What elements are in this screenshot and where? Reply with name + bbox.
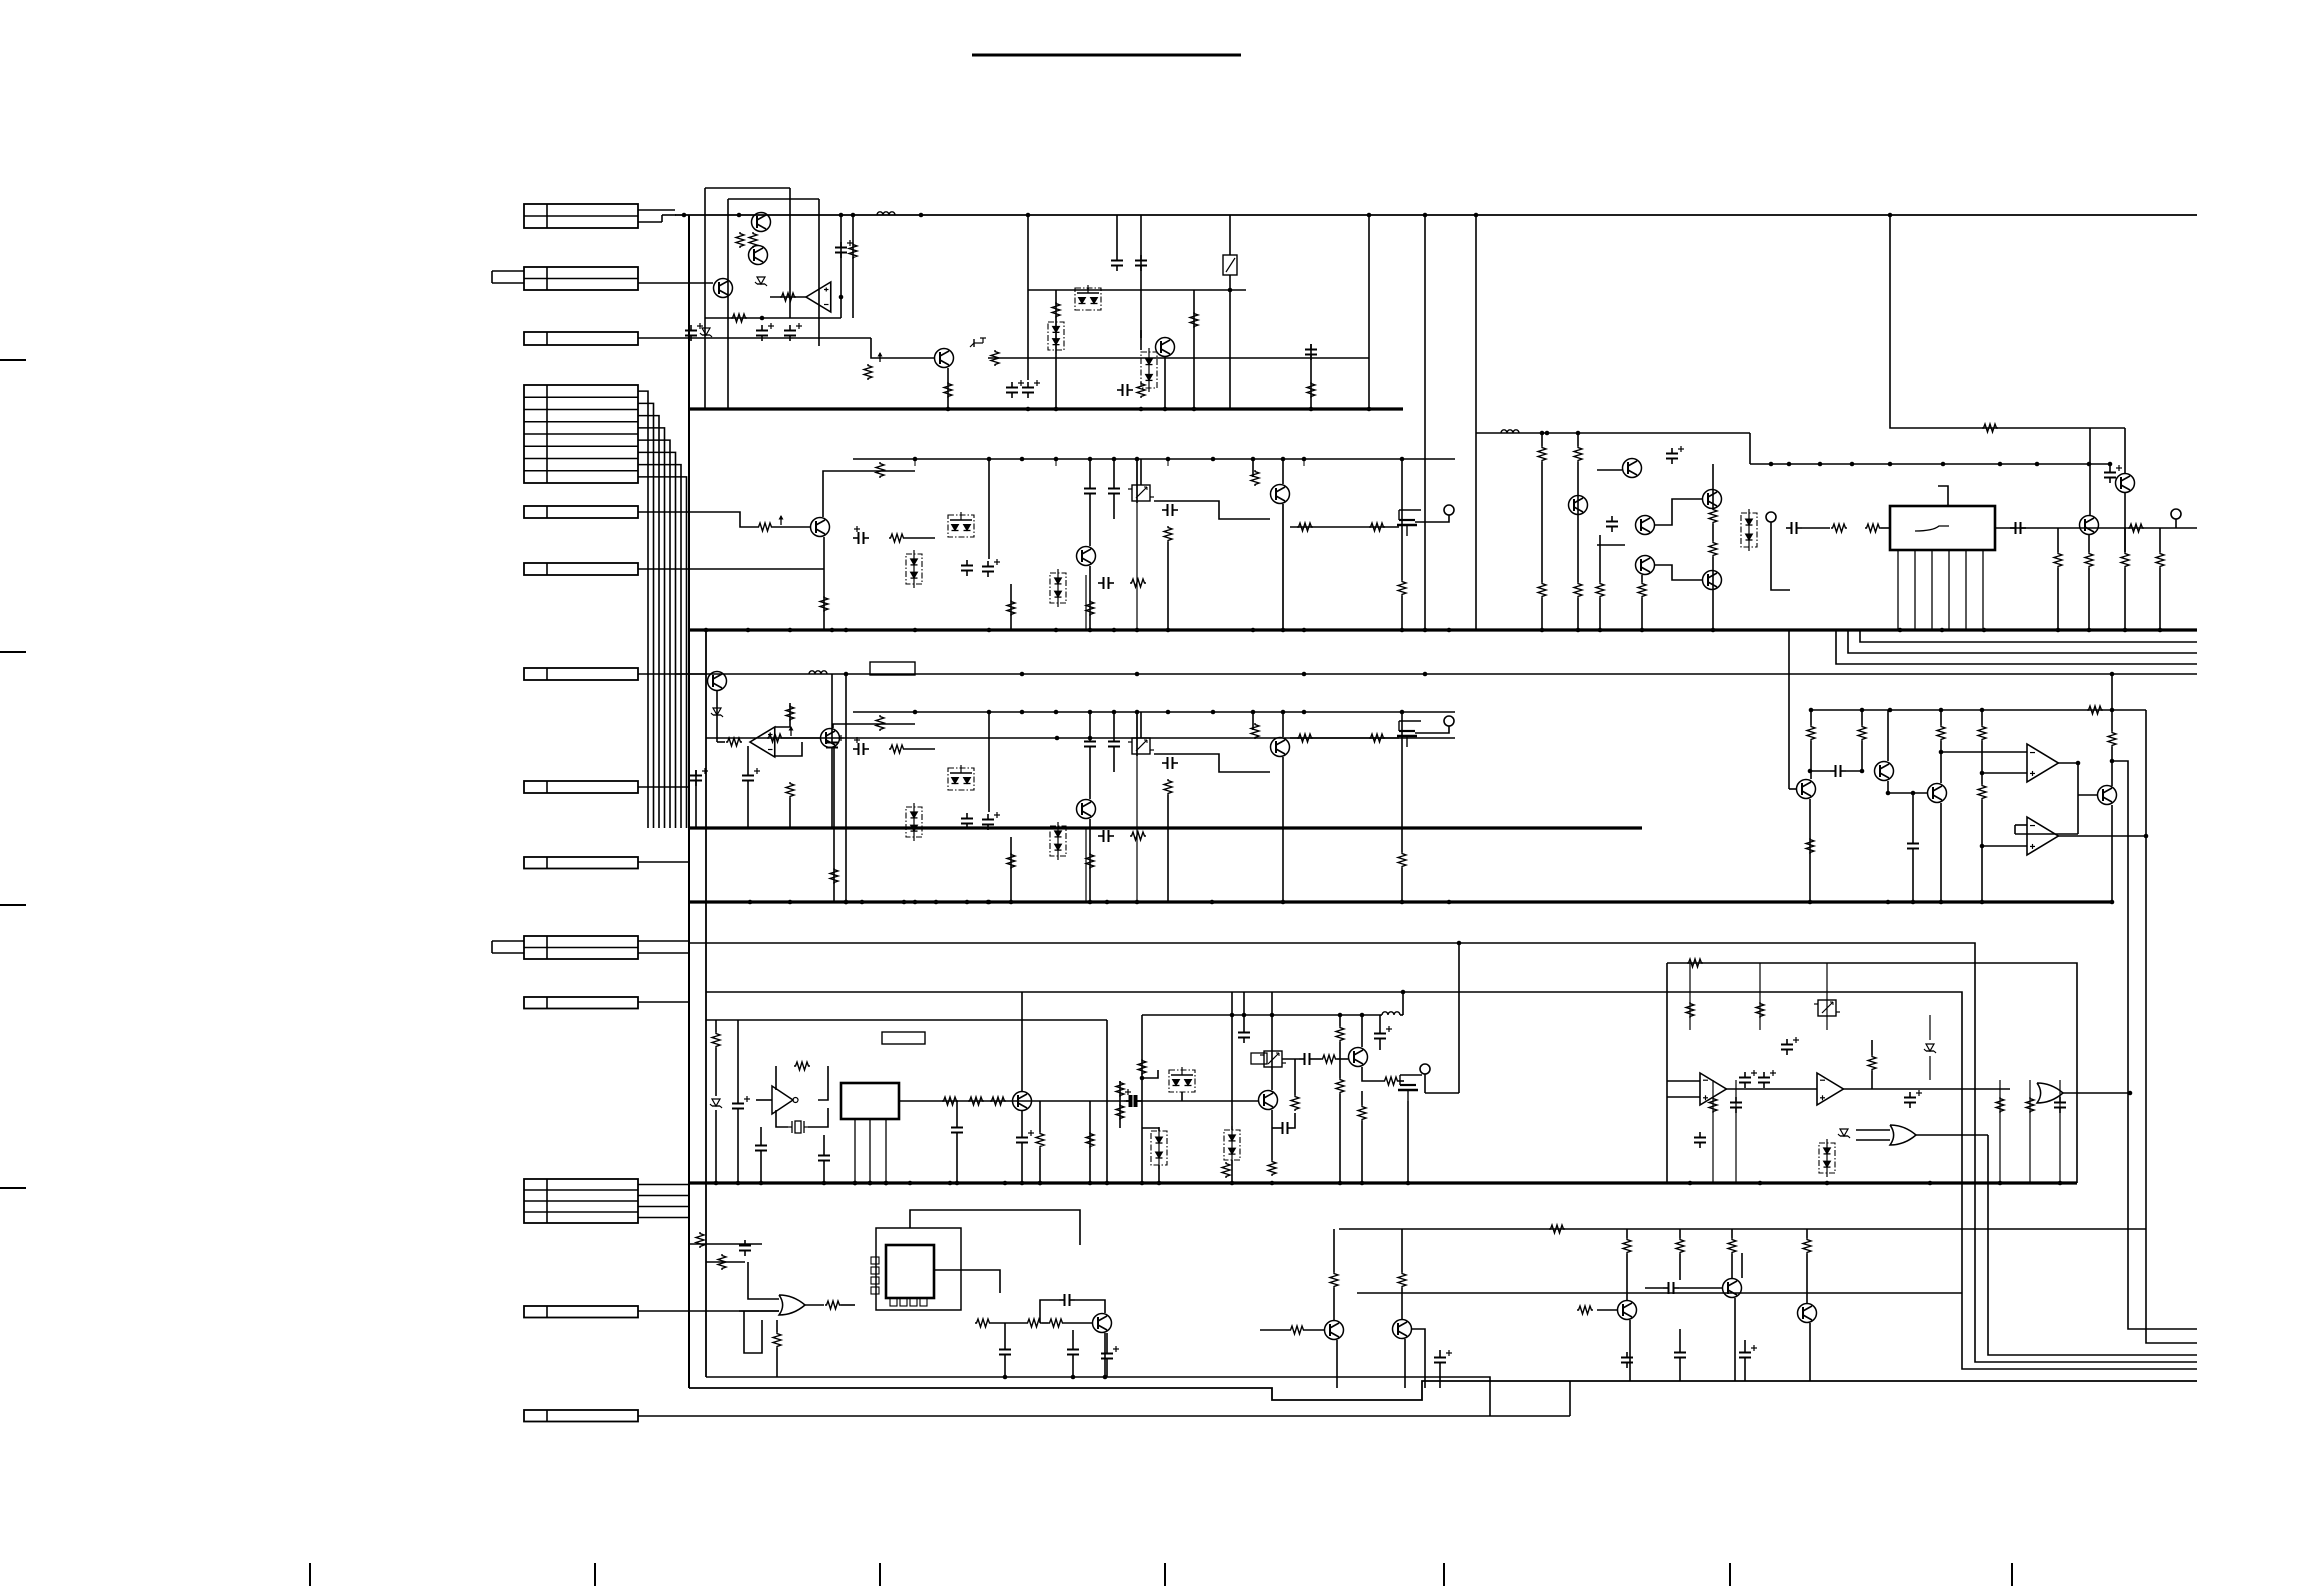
wire q611 junction: [1741, 1253, 1743, 1278]
wire ch2 v401: [1089, 459, 1091, 546]
resistor R190 on H3: [1982, 424, 1998, 432]
resistor R204: [1574, 582, 1582, 598]
wire IC602 pin l3: [871, 1277, 879, 1284]
or gate IC413: [1890, 1125, 1916, 1145]
node rail x1862: [1860, 708, 1865, 713]
node bus902b x1107: [1105, 900, 1110, 905]
node ch4 sb1272: [1270, 1013, 1275, 1018]
wire IC602 pin b1: [890, 1298, 897, 1306]
wire vert Vb: [1424, 215, 1426, 630]
wire q321 coll: [1887, 710, 1889, 761]
transistor Q203: [1636, 516, 1655, 535]
capacitor C432: [1694, 1132, 1706, 1148]
node bus1183 x1142: [1140, 1181, 1145, 1186]
wire exit H1355: [1988, 1135, 2197, 1355]
node H738 x1090: [1088, 736, 1093, 741]
wire v957: [956, 1101, 958, 1183]
resistor R108: [944, 382, 952, 398]
wire or out2: [841, 1304, 855, 1306]
terminal TP201: [1766, 512, 1776, 522]
wire ch2 v1168: [1167, 459, 1169, 466]
capacitor C303: [826, 735, 844, 753]
capacitor C101: [835, 240, 853, 258]
resistor R420: [1686, 1002, 1694, 1018]
resistor R208: [1709, 541, 1717, 557]
wire base vert Q320: [1788, 630, 1790, 789]
capacitor C620: [1434, 1350, 1452, 1368]
resistor R202: [1574, 446, 1582, 462]
diode pack ch2D1: [906, 550, 922, 588]
resistor R323: [1937, 725, 1945, 741]
capacitor C604: [1067, 1344, 1079, 1360]
resistor R506: [1036, 1132, 1044, 1148]
wire ch4 v1142: [1141, 1015, 1143, 1183]
wire q323 em: [2111, 805, 2113, 902]
node bus630r x2058: [2056, 628, 2061, 633]
resistor R431: [1116, 1081, 1124, 1097]
wire comp rail: [1810, 709, 2146, 711]
wire DL201 pin1: [1897, 550, 1899, 630]
resistor R601: [696, 1232, 704, 1248]
transistor Q501: [1013, 1092, 1032, 1111]
wire CN104 row8 tail: [638, 477, 687, 828]
node bus1183 x1340: [1338, 1181, 1343, 1186]
wire ch2 v300: [988, 459, 990, 559]
capacitor ch2C5: [1108, 483, 1120, 499]
or gate IC601: [779, 1295, 805, 1315]
wire ch2 q1up: [823, 471, 915, 517]
capacitor C503: [818, 1150, 830, 1166]
wire DL201 pin6: [1982, 550, 1984, 630]
node bus902b x1137: [1135, 900, 1140, 905]
node ch4 sb1362: [1360, 1013, 1365, 1018]
wire ch1 cluster top: [1540, 431, 1581, 446]
wire q107 link: [1140, 330, 1142, 338]
node bus902b x1402: [1400, 900, 1405, 905]
variable resistor RV101: [1223, 255, 1237, 275]
wire CN112 row1 tail: [638, 1184, 689, 1186]
node ch4 1078: [1140, 1076, 1145, 1081]
zener D102: [700, 328, 712, 337]
terminal TP202: [2171, 509, 2181, 519]
resistor ch2R11: [1398, 580, 1406, 596]
wire ch2 in: [773, 526, 810, 528]
wire left tick 1: [0, 359, 26, 361]
wire ch4 d401: [1142, 1128, 1159, 1183]
node ch4 sb1232: [1230, 1013, 1235, 1018]
wire CN113 tail: [638, 1310, 779, 1312]
wire osc top: [706, 1019, 1107, 1021]
connector CN110: [524, 936, 638, 959]
wire ch2 v1304: [1303, 459, 1305, 466]
connector CN109: [524, 857, 638, 869]
connector CN105: [524, 506, 638, 518]
node bus1183 x855: [853, 1181, 858, 1186]
resistor R302: [786, 705, 794, 721]
transistor Q320: [1797, 780, 1816, 799]
resistor ch3R11: [1398, 852, 1406, 868]
transistor ch2Q4: [1271, 485, 1290, 504]
wire or-input wiring: [689, 1244, 762, 1262]
wire v853: [852, 215, 854, 318]
transistor Q621: [1393, 1320, 1412, 1339]
wire v748: [747, 746, 749, 828]
wire CN110 tails: [638, 941, 689, 953]
wire v841: [840, 215, 842, 318]
node bus409 x1028: [1026, 407, 1031, 412]
wire ch2 v989: [988, 459, 990, 466]
node bus1377 x950: [948, 1181, 953, 1186]
wire y771: [1810, 770, 1864, 772]
wire subbox v1690a: [1689, 963, 1691, 1030]
wire v1862: [1861, 710, 1863, 771]
resistor R210: [1865, 524, 1881, 532]
resistor R104: [849, 243, 857, 259]
wire v2078: [2015, 763, 2078, 834]
node H738 x1057: [1055, 736, 1060, 741]
capacitor ch3C5: [1108, 736, 1120, 752]
diode pack D403: [1819, 1139, 1835, 1177]
wire thick bus row1: [689, 407, 1403, 410]
wire ch2 v594: [1282, 459, 1284, 484]
resistor ch3R8: [1251, 723, 1259, 739]
opto IC401: [1814, 1000, 1840, 1016]
capacitor C421: [1781, 1037, 1799, 1055]
wire v738: [737, 1020, 739, 1183]
node bus902b x790: [788, 900, 793, 905]
diode pack ch3D2: [1050, 822, 1066, 860]
mosfet pair ch2Q2: [948, 512, 974, 537]
resistor ch2R5: [1130, 579, 1146, 587]
capacitor C601: [739, 1240, 751, 1256]
node bus630 x790: [788, 628, 793, 633]
wire ic410 in: [1667, 1081, 1700, 1097]
wire CN105 tail: [638, 512, 757, 527]
wire q208: [2124, 493, 2126, 552]
zener D301: [711, 708, 723, 717]
node ch3 sb401: [1088, 710, 1093, 715]
resistor R604: [773, 1332, 781, 1348]
resistor ch3R4: [1164, 779, 1172, 795]
node H1 x921: [919, 213, 924, 218]
node bus409 x1194: [1192, 407, 1197, 412]
resistor R430: [1138, 1059, 1146, 1075]
wire c612 stub: [1680, 1329, 1745, 1381]
wire q620 base: [1260, 1329, 1324, 1331]
node n318: [760, 295, 844, 321]
capacitor ch3C3: [982, 812, 1000, 830]
node bus630r x1984: [1982, 628, 1987, 633]
capacitor C443: [1374, 1026, 1392, 1044]
resistor ch2R10: [1369, 523, 1385, 531]
wire ch2 v452: [1140, 459, 1142, 485]
wire ch3 v594: [1282, 712, 1284, 737]
node bus1377 x1073: [1071, 1375, 1076, 1380]
node bus1183 x1272: [1270, 1181, 1275, 1186]
op-amp IC310: [2027, 744, 2058, 782]
wire ic310 inm: [1941, 751, 2027, 753]
zener D101: [755, 277, 767, 286]
wire ch4 q402e: [1362, 1067, 1383, 1081]
node ch2 sb524: [1211, 457, 1216, 462]
capacitor C431: [1758, 1070, 1776, 1088]
wire DL201 pin2: [1914, 550, 1916, 630]
node bus902 x862: [860, 900, 865, 905]
node ch4 sb1244: [1242, 1013, 1247, 1018]
resistor R303: [786, 782, 794, 798]
wire ic310 inp: [1982, 772, 2027, 774]
resistor R212: [2054, 552, 2062, 568]
terminal ch2TP1: [1444, 505, 1454, 515]
node bus1183 x886: [884, 1181, 889, 1186]
wire v716: [715, 1020, 717, 1183]
node ch1 sb2110: [2108, 462, 2113, 467]
node ch1 sb1789: [1787, 462, 1792, 467]
node H674 x1022: [1020, 672, 1025, 677]
resistor R603: [825, 1301, 841, 1309]
capacitor C612: [1674, 1347, 1686, 1363]
wire DL201 curve: [1915, 526, 1949, 531]
node bus1377 x1005: [1003, 1375, 1008, 1380]
transistor Q208: [2116, 474, 2135, 493]
resistor ch2R3: [889, 534, 905, 542]
wire CN114 tail: [638, 1381, 1570, 1416]
node bus630r x1713: [1711, 628, 1716, 633]
wire IC602 pin b3: [910, 1298, 917, 1306]
wire CN104 row2 tail: [638, 403, 654, 828]
wire ch4 mos link: [1142, 1070, 1182, 1101]
wire ch3 tp: [1415, 726, 1449, 733]
node ch1 sb2000: [1998, 462, 2003, 467]
connector CN112: [524, 1179, 638, 1223]
wire ch2 q3em: [1085, 575, 1087, 630]
wire ic413 out: [1916, 1134, 1988, 1136]
wire ch4 v1232: [1231, 1015, 1233, 1183]
wire ch4 v1120: [1119, 1081, 1121, 1128]
wire CN104 row5 tail: [638, 440, 670, 828]
node bus1183 x1040: [1038, 1181, 1043, 1186]
wire ch3 out: [1290, 737, 1399, 739]
resistor R214: [2156, 552, 2164, 568]
capacitor C301: [690, 768, 708, 786]
wire q322 em: [1940, 803, 1942, 902]
wire ch4 v1244t: [1238, 992, 1250, 1043]
resistor R433: [1222, 1162, 1230, 1178]
wire ch2 q4em: [1282, 504, 1284, 630]
wire ch4 v1380: [1379, 1015, 1381, 1050]
wire ch3 v401b: [1089, 819, 1091, 902]
wire ch1 outverts: [2058, 528, 2160, 630]
capacitor C205: [2104, 465, 2122, 483]
wire v696: [695, 770, 697, 828]
wire IC602 pin l2: [871, 1267, 879, 1274]
node bus1183 x738: [736, 1181, 741, 1186]
capacitor C422: [2054, 1097, 2066, 1113]
capacitor ch3C7: [1098, 830, 1114, 842]
node bus630r x2125: [2123, 628, 2128, 633]
node bus1183 x1022: [1020, 1181, 1025, 1186]
wire osc v1107: [1106, 1020, 1108, 1183]
wire CN111 tail: [638, 1001, 689, 1003]
wire ch3 v479: [1167, 795, 1169, 902]
capacitor C320: [1830, 765, 1846, 777]
transistor Q610: [1618, 1301, 1637, 1320]
wire q601 em: [1104, 1333, 1106, 1377]
resistor R622: [1289, 1326, 1305, 1334]
node bus1377 x886: [884, 1181, 889, 1186]
resistor ch3R3: [889, 745, 905, 753]
capacitor ch2C1: [853, 526, 869, 544]
transistor Q402: [1349, 1048, 1368, 1067]
wire ch1 feed: [1476, 432, 1750, 434]
node bus630 x1056: [1054, 628, 1059, 633]
wire bottom tick 4: [1164, 1563, 1166, 1586]
resistor R438: [1336, 1078, 1344, 1094]
resistor R611: [1676, 1238, 1684, 1254]
wire bottom tick 3: [879, 1563, 881, 1586]
wire ch4 opto box: [1251, 1053, 1267, 1064]
capacitor C107: [1111, 255, 1123, 271]
resistor ch3R1: [876, 715, 884, 731]
capacitor C605: [1101, 1346, 1119, 1364]
wire right V2146: [2146, 710, 2197, 1343]
wire ch1 vert1750: [1749, 433, 1751, 464]
node bus1183 x1107: [1105, 1181, 1110, 1186]
node y771: [1808, 769, 1865, 774]
wire q601 base: [991, 1322, 1092, 1324]
op-amp IC301: [750, 727, 775, 757]
wire left tick 4: [0, 1187, 26, 1189]
capacitor C505: [1126, 1095, 1142, 1107]
wire tp201: [1771, 522, 1790, 590]
wire or fb: [744, 1311, 762, 1353]
capacitor C104: [784, 323, 802, 341]
connector CN101: [524, 204, 638, 228]
node ch1 sb1771: [1769, 462, 1774, 467]
op-amp IC311: [2027, 817, 2058, 855]
wire left tick 3: [0, 904, 26, 906]
wire ch2 q1em: [823, 537, 825, 630]
wire CN104 row4 tail: [638, 428, 665, 828]
capacitor C202: [1606, 516, 1618, 532]
wire q104 line: [988, 357, 1369, 359]
capacitor C103: [756, 323, 774, 341]
node bus1183 x1232: [1230, 1181, 1235, 1186]
wire ch4 v1459: [1458, 943, 1460, 1093]
node bus1377 x1040: [1038, 1181, 1043, 1186]
wire thick bus row4: [689, 900, 2112, 903]
node ch3 sb479: [1166, 710, 1171, 715]
wire subbox v1827a: [1826, 963, 1828, 1030]
node ch2 sb564: [1251, 457, 1256, 462]
wire ch1 bridge: [1597, 470, 1702, 580]
transistor Q102: [749, 246, 768, 265]
resistor R621: [1398, 1272, 1406, 1288]
wire ch1 into block: [1881, 527, 1890, 529]
wire tp202: [2175, 519, 2177, 528]
wire subbox v1736b: [1735, 1080, 1737, 1183]
wire v846: [845, 674, 847, 902]
wire ch3 q1up: [833, 724, 915, 728]
node bus1183 x870: [868, 1181, 873, 1186]
wire v1117: [1116, 215, 1118, 255]
wire box bottom H1388: [689, 1381, 2197, 1400]
wire left box edge V1: [688, 215, 690, 1388]
node H674 x846: [844, 672, 849, 677]
node ch3 sb713: [1400, 710, 1405, 715]
node n2130b: [2128, 1091, 2133, 1096]
opto ch3IC1: [1128, 738, 1154, 754]
wire ch3 q1em: [833, 748, 835, 902]
diode pack ch2D2: [1050, 569, 1066, 607]
wire v1056: [1055, 290, 1057, 409]
wire ch2 q4: [1154, 501, 1270, 519]
resistor R102: [749, 232, 757, 248]
resistor ch3R7: [1086, 853, 1094, 869]
capacitor C203: [1786, 522, 1802, 534]
node ch3 sb425: [1112, 710, 1117, 715]
resistor R422: [1756, 1002, 1764, 1018]
wire caps bottom: [1005, 1323, 1107, 1377]
wire mid H1229: [1339, 1228, 2146, 1230]
wire ch1 out: [1995, 527, 2197, 529]
node bus902 x846: [844, 900, 849, 905]
transistor Q601: [1093, 1314, 1112, 1333]
connector CN111: [524, 997, 638, 1009]
node bus1183 x1930: [1928, 1181, 1933, 1186]
wire v2110a: [2109, 464, 2111, 467]
node ch2 sb333: [1020, 457, 1025, 462]
wire CN101 tails: [638, 210, 676, 222]
wire DL201 pin3: [1931, 550, 1933, 630]
node bus630r x1900: [1898, 628, 1903, 633]
moscap ch3Q5: [1397, 721, 1421, 747]
node ch2 sb300: [987, 457, 992, 462]
resistor R424: [1996, 1097, 2004, 1113]
capacitor ch3C2: [961, 813, 973, 829]
inductor L201: [1501, 430, 1519, 433]
wire v1088: [1087, 288, 1089, 290]
wire ch4 in: [1099, 1100, 1258, 1102]
node ch2 sb425: [1112, 457, 1117, 462]
wire y318 row: [705, 317, 841, 319]
wire v1022: [1021, 992, 1023, 1091]
wire top bus H1: [675, 214, 2197, 216]
resistor R505: [990, 1097, 1006, 1105]
wire q611 em: [1734, 1298, 1736, 1381]
node bus902b x750: [748, 900, 753, 905]
capacitor C109: [1117, 384, 1133, 396]
transistor Q103: [714, 279, 733, 298]
node ch1 sb1943: [1941, 462, 1946, 467]
node bus630r x1542: [1540, 628, 1545, 633]
node bus630 x832: [830, 628, 835, 633]
wire ch2 out: [1290, 526, 1399, 528]
node bus902 x1810: [1808, 900, 1813, 905]
terminal ch3TP1: [1444, 716, 1454, 726]
wire ch3 mid: [905, 748, 935, 750]
node bus630r x1600: [1598, 628, 1603, 633]
node bus630 x915: [913, 628, 918, 633]
node bus630 x1449: [1447, 628, 1452, 633]
node H1 x1890: [1888, 213, 1893, 218]
transistor Q620: [1325, 1321, 1344, 1340]
photo pack D104: [1141, 348, 1157, 392]
node in773: [1980, 771, 1985, 776]
wire q320 base: [1789, 788, 1797, 790]
wire trio base: [1577, 1306, 1617, 1314]
zener D501: [710, 1099, 722, 1108]
